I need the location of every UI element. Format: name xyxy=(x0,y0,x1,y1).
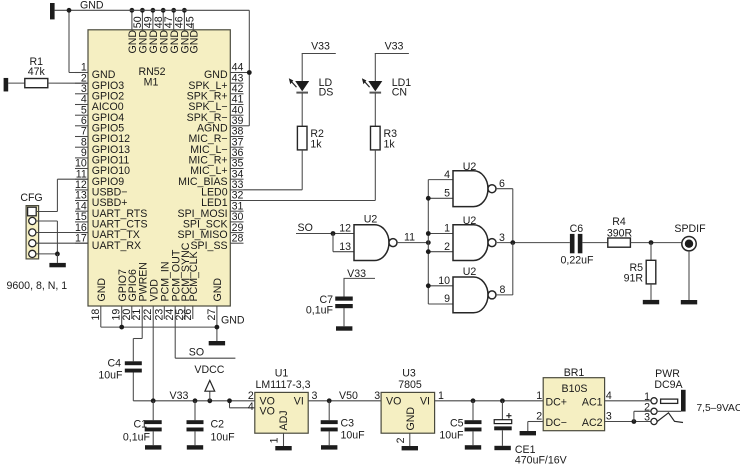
svg-text:3: 3 xyxy=(644,412,650,424)
ground (SPDIF) xyxy=(681,300,697,304)
svg-text:2: 2 xyxy=(395,437,407,443)
pin 16 UART_TX xyxy=(75,232,88,234)
svg-text:V33: V33 xyxy=(170,390,189,402)
regulator U3 body xyxy=(381,392,435,433)
resistor R5 91R xyxy=(646,260,656,284)
wire AC1 to jack pin1 xyxy=(605,400,651,402)
pin 9 GPIO11 xyxy=(75,157,88,159)
wire LED to R2 xyxy=(301,93,303,127)
wire pin24 PCM_OUT to SO xyxy=(174,319,176,358)
pin 10 GPIO10 xyxy=(75,168,88,170)
pin 42 SPK_R+ xyxy=(230,93,243,95)
pin 34 MIC_BIAS xyxy=(230,178,243,180)
svg-text:7,5–9VAC: 7,5–9VAC xyxy=(697,403,740,414)
svg-text:1: 1 xyxy=(438,390,444,402)
pin 44 GND xyxy=(230,72,243,74)
svg-text:7805: 7805 xyxy=(398,379,422,391)
regulator U1 body xyxy=(255,392,308,433)
bridge BR1 body xyxy=(543,378,604,431)
svg-text:VI: VI xyxy=(294,396,304,408)
pin 5 GPIO4 xyxy=(75,114,88,116)
svg-text:U2: U2 xyxy=(463,266,477,278)
svg-text:4: 4 xyxy=(248,401,254,413)
wire C6 to R4 xyxy=(582,242,607,244)
svg-text:3: 3 xyxy=(312,390,318,402)
svg-text:GND: GND xyxy=(212,278,224,302)
svg-text:AC2: AC2 xyxy=(582,417,603,429)
ground (C3) xyxy=(321,445,337,449)
svg-text:3: 3 xyxy=(606,411,612,423)
svg-text:V50: V50 xyxy=(339,390,358,402)
svg-text:VDCC: VDCC xyxy=(194,364,224,376)
svg-text:4: 4 xyxy=(606,390,612,402)
wire CFG5 to gnd xyxy=(36,253,58,255)
capacitor C2 xyxy=(193,398,198,403)
pin 2 GPIO3 xyxy=(75,82,88,84)
pin 48 GND (top) xyxy=(152,10,154,30)
pin 49 GND (top) xyxy=(141,10,143,30)
svg-text:0,22uF: 0,22uF xyxy=(561,254,595,266)
pin 11 GPIO9 xyxy=(75,178,88,180)
svg-text:PWR: PWR xyxy=(655,368,680,380)
wire R2 to pin xyxy=(301,150,303,190)
pin 50 GND (top) xyxy=(131,10,133,30)
ground (C2) xyxy=(187,445,203,449)
svg-text:1k: 1k xyxy=(310,139,322,151)
svg-text:C1: C1 xyxy=(133,419,147,431)
svg-text:45: 45 xyxy=(184,16,196,28)
wire V33 to LED LD1 xyxy=(374,54,376,82)
svg-text:2: 2 xyxy=(536,411,542,423)
wire pin21 to C4 xyxy=(141,319,143,339)
resistor R4 390R xyxy=(608,238,631,247)
wire R3 to pin xyxy=(374,150,376,201)
svg-text:GND: GND xyxy=(96,278,108,302)
svg-text:B10S: B10S xyxy=(562,383,588,395)
junction VDD/C1 xyxy=(151,398,156,403)
svg-text:DC+: DC+ xyxy=(546,396,568,408)
pin 21 PWREN (bottom) xyxy=(141,306,143,319)
capacitor C5 xyxy=(472,401,474,420)
svg-text:18: 18 xyxy=(90,309,102,321)
svg-text:1k: 1k xyxy=(384,139,396,151)
wire pin22 VDD drop xyxy=(152,319,154,401)
junction bus/11 xyxy=(426,240,431,245)
capacitor C4 xyxy=(125,361,142,365)
svg-text:V33: V33 xyxy=(311,41,330,53)
pin 25 PCM_SYNC (bottom) xyxy=(184,306,186,319)
wire bottom GND rail xyxy=(101,326,217,328)
pin 43 SPK_L+ xyxy=(230,82,243,84)
pin 8 GPIO13 xyxy=(75,146,88,148)
svg-text:GND: GND xyxy=(188,30,200,54)
junction pin19 gnd xyxy=(119,325,124,330)
pin 39 AGND xyxy=(230,125,243,127)
pin 7 GPIO12 xyxy=(75,136,88,138)
ground (pin27) xyxy=(209,341,225,345)
svg-text:470uF/16V: 470uF/16V xyxy=(515,454,568,465)
svg-text:VO: VO xyxy=(260,406,275,418)
svg-text:390R: 390R xyxy=(607,227,633,239)
svg-text:C4: C4 xyxy=(107,358,121,370)
wire R4 to SPDIF xyxy=(630,242,681,244)
IC M1 RN52 body xyxy=(88,30,230,306)
pin 23 PCM_IN (bottom) xyxy=(163,306,165,319)
junction pin44 xyxy=(247,70,252,75)
svg-text:GND: GND xyxy=(221,315,245,327)
pin 13 USBD+ xyxy=(75,200,88,202)
svg-text:12: 12 xyxy=(339,223,351,235)
wire SPDIF to gnd xyxy=(688,251,690,300)
svg-text:VO: VO xyxy=(386,396,401,408)
svg-text:C3: C3 xyxy=(341,418,355,430)
jack switch lever xyxy=(657,413,683,423)
pin 47 GND (top) xyxy=(162,10,164,30)
svg-text:DC−: DC− xyxy=(546,417,568,429)
svg-text:1: 1 xyxy=(444,223,450,235)
wire DC- to gnd xyxy=(528,421,543,423)
svg-text:U1: U1 xyxy=(275,368,289,380)
resistor R3 1k xyxy=(371,126,381,150)
capacitor C3 xyxy=(328,401,330,420)
pin 4 AICO0 xyxy=(75,104,88,106)
capacitor C7 xyxy=(335,297,353,301)
wire pin27 drop xyxy=(216,319,218,341)
capacitor C6 xyxy=(570,234,575,253)
wire jack2 to jack3 xyxy=(634,410,651,412)
svg-text:10uF: 10uF xyxy=(439,429,464,441)
junction CFG gnd xyxy=(55,252,60,257)
wire V33 rail xyxy=(133,400,255,402)
svg-text:11: 11 xyxy=(404,232,415,244)
svg-text:0,1uF: 0,1uF xyxy=(306,304,334,316)
connector CFG body xyxy=(26,206,38,259)
pin 12 USBD− xyxy=(75,189,88,191)
wire output 3 to C6 xyxy=(497,242,570,244)
pin 3 GPIO2 xyxy=(75,93,88,95)
svg-text:6: 6 xyxy=(499,178,505,190)
pin 26 PCM_CLK (bottom) xyxy=(192,306,194,319)
svg-text:28: 28 xyxy=(232,232,244,244)
supply VDCC arrow xyxy=(207,398,212,403)
resistor R1 xyxy=(25,79,48,88)
svg-text:27: 27 xyxy=(206,309,218,321)
svg-text:26: 26 xyxy=(182,309,194,321)
svg-text:SPI_SS: SPI_SS xyxy=(190,240,227,252)
pin 17 UART_RX xyxy=(75,242,88,244)
svg-text:AC1: AC1 xyxy=(582,396,603,408)
junction pin1/GND xyxy=(67,8,72,13)
svg-text:9: 9 xyxy=(444,293,450,305)
ground (top-left bar) xyxy=(50,3,55,19)
LED LD DS xyxy=(295,81,309,91)
wire AC2 to jack pin3 xyxy=(605,421,651,423)
pin 24 PCM_OUT (bottom) xyxy=(174,306,176,319)
wire CFG3 to UART_TX pin16 xyxy=(36,232,88,234)
wire U1 pin4 to rail xyxy=(230,407,255,409)
capacitor CE1 (electrolytic) xyxy=(501,401,503,420)
wire gnd-R1 xyxy=(8,82,25,84)
wire to gnd bar xyxy=(56,254,58,263)
wire CFG2 to gnd xyxy=(36,220,58,222)
ground (R5) xyxy=(643,300,659,304)
pin 37 MIC_L− xyxy=(230,146,243,148)
ground (CFG) xyxy=(49,263,65,267)
wire R1-pin2 xyxy=(48,82,88,84)
svg-text:VI: VI xyxy=(420,396,430,408)
jack barrel bar xyxy=(681,390,686,412)
svg-text:V33: V33 xyxy=(385,41,404,53)
pin 31 SPI_MOSI xyxy=(230,210,243,212)
svg-text:SPDIF: SPDIF xyxy=(674,223,706,235)
svg-text:CFG: CFG xyxy=(20,192,42,204)
junction C3 xyxy=(327,398,332,403)
pin 18 GND (bottom) xyxy=(100,306,102,319)
pin 36 MIC_R+ xyxy=(230,157,243,159)
svg-text:3: 3 xyxy=(374,390,380,402)
pin 14 UART_RTS xyxy=(75,210,88,212)
svg-text:13: 13 xyxy=(339,241,351,253)
pin 15 UART_CTS xyxy=(75,221,88,223)
wire U1 out to U3 xyxy=(308,400,381,402)
svg-text:8: 8 xyxy=(500,284,506,296)
pin 38 MIC_R− xyxy=(230,136,243,138)
svg-text:U3: U3 xyxy=(402,368,416,380)
pin 51 GND (top, unconnected) xyxy=(192,23,194,30)
svg-text:1: 1 xyxy=(269,437,281,443)
wire input bus xyxy=(427,180,429,304)
ground (CE1) xyxy=(494,446,510,450)
svg-text:5: 5 xyxy=(444,188,450,200)
wire GND down to pin44/pin39 xyxy=(248,10,250,126)
wire top GND rail xyxy=(55,9,250,11)
wire output 8 xyxy=(496,294,513,296)
junction R5 xyxy=(649,240,654,245)
junction outputs xyxy=(510,240,515,245)
wire output 6 xyxy=(496,188,513,190)
svg-text:SO: SO xyxy=(298,222,313,234)
wire CFG4 to UART_RX pin17 xyxy=(36,242,88,244)
jack tip contact xyxy=(661,399,678,403)
ground (left of R1) xyxy=(4,78,9,92)
pin 19 GPIO7 (bottom) xyxy=(121,306,123,319)
pin 28 SPI_SS xyxy=(230,242,243,244)
svg-text:UART_RX: UART_RX xyxy=(92,240,141,252)
svg-text:PCM_CLK: PCM_CLK xyxy=(188,251,200,301)
svg-text:91R: 91R xyxy=(624,273,644,285)
CFG pins 2-5 (circles) xyxy=(29,217,36,224)
svg-text:10: 10 xyxy=(438,275,450,287)
svg-text:9600, 8, N, 1: 9600, 8, N, 1 xyxy=(7,280,68,292)
svg-text:3: 3 xyxy=(499,232,505,244)
wire pin18 drop xyxy=(100,319,102,327)
svg-text:SO: SO xyxy=(189,346,204,358)
pin 40 SPK_R− xyxy=(230,114,243,116)
svg-text:R4: R4 xyxy=(612,216,626,228)
junction CE1 xyxy=(500,398,505,403)
pin 29 SPI_MISO xyxy=(230,232,243,234)
pin 41 SPK_L− xyxy=(230,104,243,106)
svg-text:ADJ: ADJ xyxy=(278,410,290,430)
svg-text:CN: CN xyxy=(392,86,407,98)
svg-text:0,1uF: 0,1uF xyxy=(123,432,151,444)
ground (C1) xyxy=(145,445,161,449)
pin 1 GND xyxy=(75,72,88,74)
junction jack2/3 xyxy=(632,419,637,424)
svg-text:GND: GND xyxy=(405,407,417,431)
wire CFG1 to GPIO9 pin11 xyxy=(36,211,57,213)
pin 27 GND (bottom) xyxy=(216,306,218,319)
LED LD1 CN xyxy=(368,81,382,91)
wire pin19 drop xyxy=(121,319,123,327)
junction pin27 gnd xyxy=(215,325,220,330)
svg-text:C6: C6 xyxy=(570,223,584,235)
svg-text:DS: DS xyxy=(319,86,334,98)
ground (U1) xyxy=(275,446,291,450)
svg-text:10uF: 10uF xyxy=(98,369,123,381)
svg-text:10uF: 10uF xyxy=(211,432,236,444)
svg-text:17: 17 xyxy=(75,232,87,244)
svg-text:10uF: 10uF xyxy=(341,429,366,441)
ground (U3) xyxy=(402,446,418,450)
svg-text:GND: GND xyxy=(80,0,104,12)
pin 22 VDD (bottom) xyxy=(152,306,154,319)
wire pin1 riser xyxy=(69,72,88,74)
pin 45 GND (top) xyxy=(183,10,185,30)
wire C4 to V33 rail xyxy=(132,373,134,401)
wire LED to R3 xyxy=(374,93,376,127)
svg-text:LM1117-3,3: LM1117-3,3 xyxy=(256,379,311,391)
svg-text:C5: C5 xyxy=(450,418,464,430)
wire SO to gate inputs 12/13 xyxy=(296,233,354,235)
pin 20 GPIO6 (bottom) xyxy=(131,306,133,319)
wire V33 to LED LD xyxy=(301,54,303,82)
capacitor C1 xyxy=(152,401,154,420)
svg-text:DC9A: DC9A xyxy=(654,379,683,391)
pin 32 LED1 xyxy=(230,200,243,202)
pin 35 MIC_L+ xyxy=(230,168,243,170)
svg-text:C2: C2 xyxy=(211,419,225,431)
svg-text:BR1: BR1 xyxy=(564,367,585,379)
ground (BR1) xyxy=(520,431,536,435)
ground (C7) xyxy=(336,326,352,330)
wire U3 in from bridge xyxy=(435,400,544,402)
svg-text:1: 1 xyxy=(536,390,542,402)
wire V33 to C7 xyxy=(343,278,345,296)
pin 30 SPI_SCK xyxy=(230,221,243,223)
CFG pin 1 (square) xyxy=(28,207,37,216)
svg-text:2: 2 xyxy=(444,241,450,253)
resistor R2 1k xyxy=(297,126,307,150)
svg-text:U2: U2 xyxy=(364,214,378,226)
svg-text:47k: 47k xyxy=(28,66,46,78)
pin 33 LED0 xyxy=(230,189,243,191)
svg-text:4: 4 xyxy=(444,169,450,181)
pin 6 GPIO5 xyxy=(75,125,88,127)
svg-text:M1: M1 xyxy=(144,77,159,89)
wire to R5 xyxy=(650,243,652,261)
ground (C5) xyxy=(465,445,481,449)
junction C5 xyxy=(471,398,476,403)
pin 46 GND (top) xyxy=(173,10,175,30)
wire jack2 to sleeve xyxy=(657,410,681,412)
